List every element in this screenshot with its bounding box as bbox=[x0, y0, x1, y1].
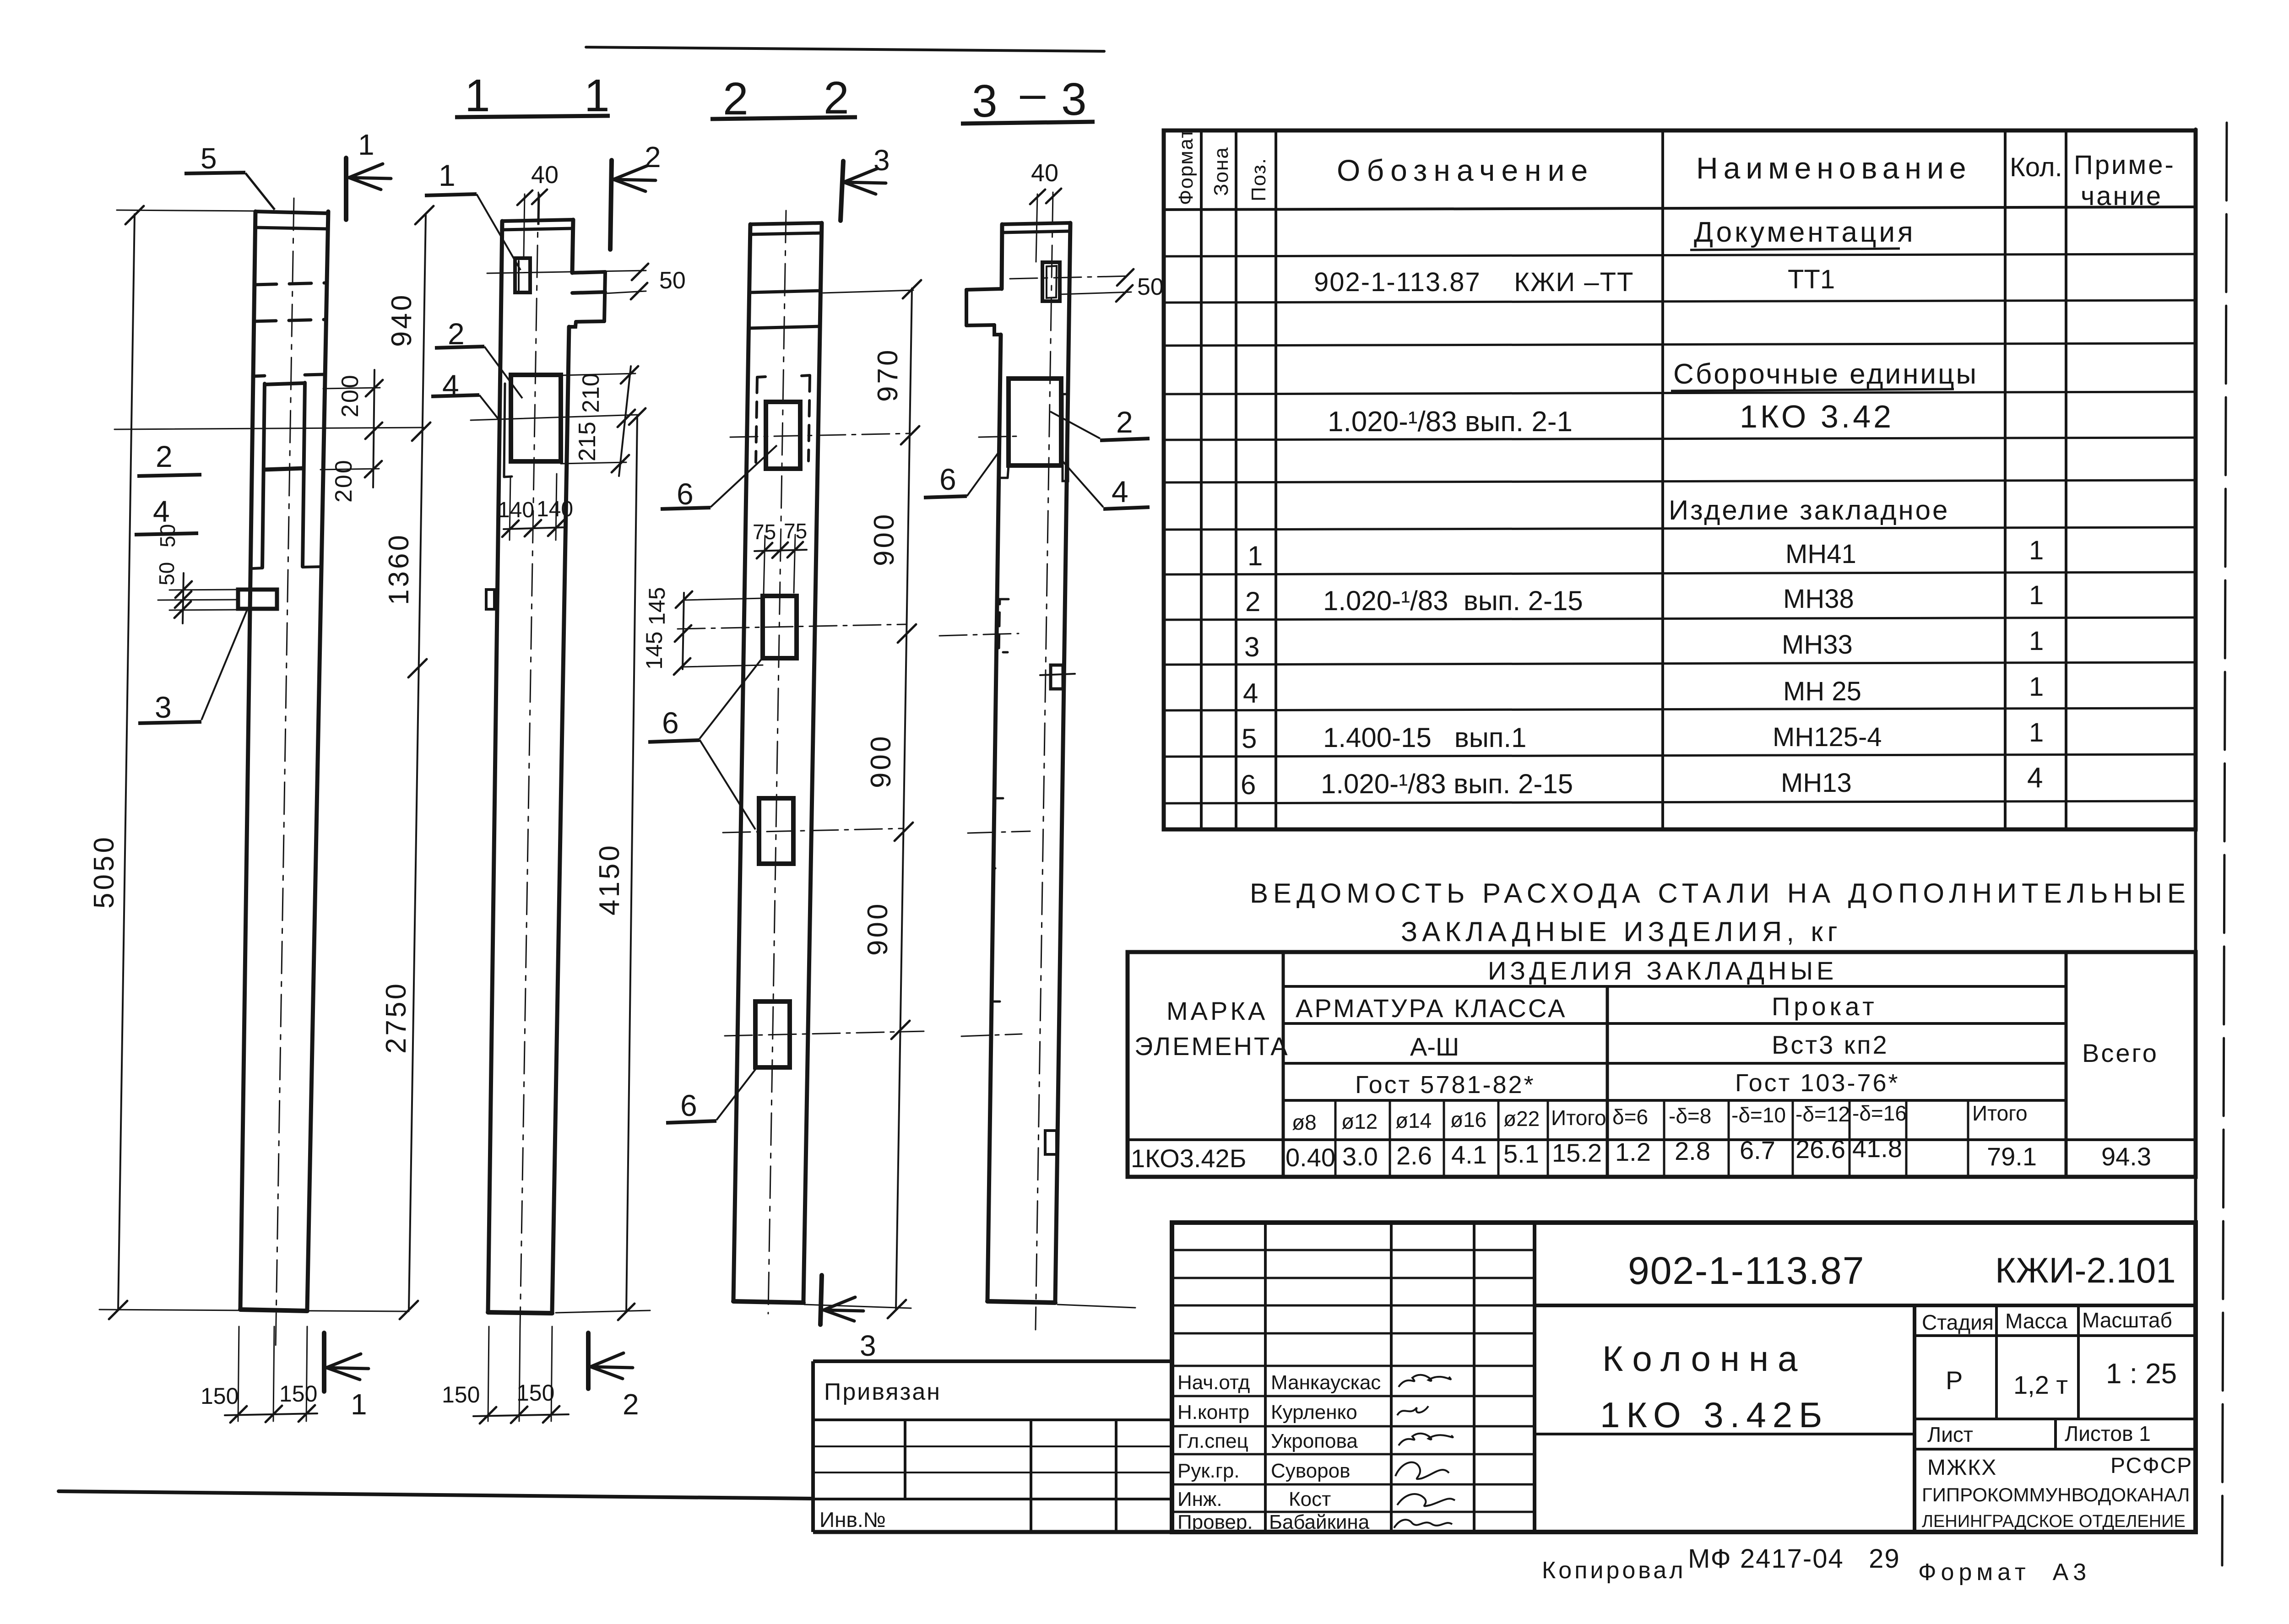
right plate D col4 bbox=[1045, 1131, 1057, 1154]
svg-text:6: 6 bbox=[662, 706, 679, 740]
svg-text:Масса: Масса bbox=[2005, 1309, 2067, 1333]
svg-text:Кост: Кост bbox=[1289, 1488, 1331, 1510]
svg-text:1: 1 bbox=[2029, 718, 2044, 747]
svg-text:26.6: 26.6 bbox=[1795, 1135, 1845, 1164]
svg-text:1,2 т: 1,2 т bbox=[2013, 1370, 2068, 1399]
svg-text:1КО 3.42Б: 1КО 3.42Б bbox=[1600, 1395, 1828, 1435]
column 1 centerline bbox=[276, 198, 294, 1350]
svg-text:3.0: 3.0 bbox=[1342, 1142, 1378, 1171]
svg-text:Привязан: Привязан bbox=[824, 1379, 941, 1405]
svg-text:1КО 3.42: 1КО 3.42 bbox=[1740, 399, 1894, 434]
section mark 3 bottom bbox=[820, 1275, 863, 1325]
svg-text:1: 1 bbox=[465, 70, 490, 121]
svg-text:Обозначение: Обозначение bbox=[1337, 153, 1594, 187]
column 1 dashed joint lines bbox=[255, 283, 327, 285]
section mark 3 top bbox=[841, 161, 886, 221]
svg-text:Сборочные единицы: Сборочные единицы bbox=[1673, 358, 1978, 390]
svg-text:2: 2 bbox=[645, 141, 661, 173]
svg-text:50: 50 bbox=[1137, 274, 1164, 300]
embedded plate item 3 bbox=[238, 590, 277, 609]
svg-text:900: 900 bbox=[865, 734, 897, 788]
svg-text:5.1: 5.1 bbox=[1503, 1139, 1539, 1168]
dimension 970/900/900/900 bbox=[804, 280, 921, 1318]
svg-text:Гост 103-76*: Гост 103-76* bbox=[1735, 1069, 1900, 1097]
dimension 50 col2 bbox=[487, 264, 648, 299]
svg-text:δ=6: δ=6 bbox=[1612, 1105, 1648, 1129]
svg-text:4150: 4150 bbox=[594, 843, 625, 915]
svg-text:1: 1 bbox=[2029, 580, 2044, 610]
svg-text:902-1-113.87: 902-1-113.87 bbox=[1628, 1249, 1865, 1292]
vertical column lines bbox=[1200, 130, 1203, 829]
svg-text:94.3: 94.3 bbox=[2101, 1142, 2151, 1171]
corbel block items 2/4 bbox=[511, 375, 561, 461]
svg-text:0.40: 0.40 bbox=[1286, 1143, 1335, 1172]
svg-text:15.2: 15.2 bbox=[1552, 1138, 1602, 1167]
svg-text:КЖИ-2.101: КЖИ-2.101 bbox=[1995, 1250, 2176, 1290]
svg-text:ГИПРОКОММУНВОДОКАНАЛ: ГИПРОКОММУНВОДОКАНАЛ bbox=[1922, 1484, 2190, 1505]
column 3 joint lines bbox=[749, 291, 821, 292]
right frame vertical bbox=[2194, 129, 2197, 1532]
embedded plate 6c bbox=[759, 798, 793, 864]
dimension line 940/1360/2750 bbox=[114, 206, 434, 1319]
section title 2-2 bbox=[723, 72, 849, 125]
svg-text:1: 1 bbox=[584, 70, 610, 121]
svg-text:4: 4 bbox=[2027, 762, 2043, 794]
svg-text:-δ=8: -δ=8 bbox=[1669, 1104, 1711, 1128]
svg-text:140: 140 bbox=[498, 498, 534, 522]
svg-text:1.020-¹/83 вып. 2-1: 1.020-¹/83 вып. 2-1 bbox=[1328, 406, 1573, 438]
dimension 40 col4 bbox=[1030, 189, 1061, 262]
svg-text:40: 40 bbox=[1031, 159, 1058, 187]
svg-text:2750: 2750 bbox=[380, 981, 412, 1054]
svg-text:ø16: ø16 bbox=[1450, 1108, 1486, 1131]
svg-text:2.8: 2.8 bbox=[1675, 1137, 1710, 1165]
svg-text:6: 6 bbox=[939, 462, 956, 496]
dimension 4150 bbox=[556, 408, 650, 1320]
svg-text:ИЗДЕЛИЯ ЗАКЛАДНЫЕ: ИЗДЕЛИЯ ЗАКЛАДНЫЕ bbox=[1488, 956, 1837, 985]
svg-text:Наименование: Наименование bbox=[1696, 151, 1972, 185]
TITLE BLOCK bbox=[1172, 1223, 2196, 1532]
dashed page margin line bbox=[2222, 123, 2227, 1565]
svg-text:Манкаускас: Манкаускас bbox=[1271, 1371, 1381, 1394]
svg-text:–: – bbox=[1020, 68, 1046, 119]
svg-text:Документация: Документация bbox=[1694, 217, 1916, 248]
dimension 145/145 bbox=[674, 591, 763, 675]
svg-text:МН 25: МН 25 bbox=[1783, 677, 1861, 706]
svg-text:Вст3 кп2: Вст3 кп2 bbox=[1772, 1030, 1889, 1059]
svg-text:Инв.№: Инв.№ bbox=[819, 1508, 886, 1532]
embedded plate 6a bbox=[766, 402, 800, 469]
COLUMN VIEW 4 (section 3-3) bbox=[939, 192, 1135, 1330]
svg-text:210: 210 bbox=[578, 373, 604, 413]
svg-text:5: 5 bbox=[1242, 723, 1257, 754]
svg-text:200: 200 bbox=[331, 459, 357, 503]
svg-text:2.6: 2.6 bbox=[1396, 1141, 1432, 1170]
svg-text:Формат А3: Формат А3 bbox=[1918, 1559, 2091, 1586]
svg-text:1: 1 bbox=[2029, 672, 2044, 702]
svg-text:Р: Р bbox=[1946, 1366, 1963, 1395]
svg-text:Бабайкина: Бабайкина bbox=[1269, 1511, 1370, 1533]
svg-text:Кол.: Кол. bbox=[2010, 152, 2062, 182]
svg-text:150: 150 bbox=[279, 1381, 317, 1407]
svg-text:6.7: 6.7 bbox=[1740, 1136, 1775, 1164]
plate centerlines bbox=[730, 433, 909, 437]
svg-text:1.020-¹/83 вып. 2-15: 1.020-¹/83 вып. 2-15 bbox=[1323, 585, 1583, 616]
svg-text:Колонна: Колонна bbox=[1602, 1338, 1806, 1379]
svg-text:Курленко: Курленко bbox=[1271, 1401, 1357, 1424]
svg-text:2: 2 bbox=[1245, 586, 1260, 617]
svg-text:Зона: Зона bbox=[1210, 146, 1232, 196]
svg-text:75: 75 bbox=[784, 519, 807, 543]
svg-text:3: 3 bbox=[1061, 74, 1087, 125]
svg-text:1.2: 1.2 bbox=[1615, 1137, 1651, 1166]
svg-text:3: 3 bbox=[873, 144, 890, 177]
column 2 centerline bbox=[520, 192, 538, 1327]
svg-text:970: 970 bbox=[872, 348, 904, 402]
svg-text:150: 150 bbox=[201, 1383, 239, 1409]
svg-text:1: 1 bbox=[2029, 536, 2044, 565]
svg-text:Гл.спец: Гл.спец bbox=[1177, 1430, 1248, 1452]
svg-text:ø12: ø12 bbox=[1341, 1110, 1378, 1133]
dimension 140/140 bbox=[502, 474, 566, 540]
svg-text:ЛЕНИНГРАДСКОЕ ОТДЕЛЕНИЕ: ЛЕНИНГРАДСКОЕ ОТДЕЛЕНИЕ bbox=[1922, 1512, 2186, 1531]
svg-text:Копировал: Копировал bbox=[1542, 1557, 1686, 1584]
column 4 outline bbox=[1055, 223, 1070, 1301]
dimension 75/75 bbox=[754, 535, 807, 594]
svg-text:900: 900 bbox=[862, 902, 894, 956]
top frame line bbox=[586, 47, 1104, 51]
column 1 outline bbox=[240, 211, 255, 1310]
svg-text:1: 1 bbox=[351, 1388, 367, 1421]
phi header row bbox=[1292, 1101, 2028, 1134]
section mark 1 top bbox=[346, 158, 391, 220]
svg-text:5050: 5050 bbox=[88, 834, 120, 909]
svg-text:1: 1 bbox=[439, 158, 456, 192]
svg-text:1: 1 bbox=[358, 128, 374, 161]
svg-text:Приме-: Приме- bbox=[2074, 150, 2175, 180]
COLUMN VIEW 1 (front elevation) bbox=[238, 198, 328, 1350]
svg-text:1.400-15 вып.1: 1.400-15 вып.1 bbox=[1323, 722, 1526, 753]
SPECIFICATION TABLE (top right) bbox=[1164, 130, 2196, 829]
svg-text:Листов 1: Листов 1 bbox=[2065, 1422, 2151, 1445]
tie-in block (Privyazan) bbox=[813, 1361, 1172, 1532]
svg-text:Н.контр: Н.контр bbox=[1177, 1401, 1249, 1424]
svg-text:2: 2 bbox=[623, 1388, 639, 1421]
svg-text:ЗАКЛАДНЫЕ ИЗДЕЛИЯ, кг: ЗАКЛАДНЫЕ ИЗДЕЛИЯ, кг bbox=[1401, 916, 1842, 947]
svg-text:940: 940 bbox=[386, 293, 418, 347]
svg-text:902-1-113.87 КЖИ –ТТ: 902-1-113.87 КЖИ –ТТ bbox=[1314, 267, 1634, 297]
dimension 40 top col2 bbox=[517, 189, 547, 256]
svg-text:Суворов: Суворов bbox=[1271, 1460, 1350, 1482]
svg-text:50: 50 bbox=[659, 267, 686, 294]
column 3 outline bbox=[733, 224, 750, 1301]
svg-text:1: 1 bbox=[1248, 541, 1263, 571]
column 4 left console notch bbox=[966, 289, 1002, 290]
data row bbox=[1131, 1134, 2151, 1173]
COLUMN VIEW 3 (section 2-2) bbox=[678, 211, 924, 1314]
svg-text:1: 1 bbox=[2029, 626, 2044, 656]
svg-text:МН125-4: МН125-4 bbox=[1773, 722, 1882, 752]
dimension 50 col4 bbox=[1010, 269, 1134, 302]
column 2 outline bbox=[488, 221, 502, 1312]
svg-text:МН13: МН13 bbox=[1781, 768, 1852, 798]
section title 1-1 bbox=[465, 70, 610, 121]
row lines bbox=[1164, 254, 2196, 256]
svg-text:Поз.: Поз. bbox=[1248, 157, 1270, 201]
svg-text:1360: 1360 bbox=[383, 533, 415, 605]
svg-text:-δ=12: -δ=12 bbox=[1795, 1102, 1850, 1126]
signature rows labels bbox=[1177, 1371, 1381, 1533]
svg-text:6: 6 bbox=[677, 477, 694, 511]
svg-text:АРМАТУРА КЛАССА: АРМАТУРА КЛАССА bbox=[1296, 994, 1567, 1023]
svg-text:2: 2 bbox=[1116, 405, 1133, 439]
dimension 5050 bbox=[99, 206, 409, 1319]
svg-text:ЭЛЕМЕНТА: ЭЛЕМЕНТА bbox=[1134, 1032, 1290, 1061]
svg-text:Итого: Итого bbox=[1972, 1101, 2028, 1125]
column 2 right console notch bbox=[572, 272, 605, 273]
section mark 2 bottom bbox=[588, 1333, 633, 1389]
svg-text:200: 200 bbox=[337, 374, 363, 417]
section mark 2 top bbox=[610, 160, 656, 249]
svg-text:4: 4 bbox=[153, 494, 170, 528]
svg-text:215: 215 bbox=[574, 422, 601, 461]
svg-text:-δ=10: -δ=10 bbox=[1731, 1103, 1786, 1127]
svg-text:МН33: МН33 bbox=[1782, 630, 1853, 660]
svg-text:Провер.: Провер. bbox=[1177, 1511, 1253, 1533]
header bottom bbox=[1164, 207, 2196, 210]
svg-text:41.8: 41.8 bbox=[1852, 1134, 1902, 1163]
svg-text:ø14: ø14 bbox=[1395, 1109, 1432, 1132]
svg-text:50: 50 bbox=[155, 562, 179, 585]
COLUMN VIEW 2 (section 1-1) bbox=[486, 192, 605, 1327]
svg-text:6: 6 bbox=[680, 1088, 697, 1122]
svg-text:Инж.: Инж. bbox=[1177, 1488, 1222, 1510]
svg-text:Лист: Лист bbox=[1927, 1423, 1973, 1446]
svg-text:Итого: Итого bbox=[1551, 1106, 1606, 1130]
svg-text:Формат: Формат bbox=[1175, 128, 1197, 205]
svg-text:Гост 5781-82*: Гост 5781-82* bbox=[1355, 1071, 1535, 1099]
svg-text:145: 145 bbox=[644, 587, 670, 625]
dimension 200/200 bbox=[320, 370, 383, 487]
svg-text:-δ=16: -δ=16 bbox=[1852, 1101, 1907, 1125]
embedded plate item 1 bbox=[515, 258, 530, 292]
svg-text:Стадия: Стадия bbox=[1922, 1310, 1994, 1334]
signatures bbox=[1394, 1375, 1455, 1528]
section mark 1 bottom bbox=[324, 1333, 369, 1391]
svg-text:75: 75 bbox=[753, 520, 776, 544]
svg-text:МАРКА: МАРКА bbox=[1166, 996, 1268, 1025]
svg-text:3: 3 bbox=[155, 690, 172, 724]
svg-text:3: 3 bbox=[972, 76, 998, 127]
svg-text:5: 5 bbox=[201, 142, 217, 175]
corbel block col4 bbox=[1009, 379, 1061, 466]
small left plate bbox=[486, 590, 494, 609]
hidden recess dashed bbox=[757, 377, 765, 377]
svg-text:Рук.гр.: Рук.гр. bbox=[1177, 1460, 1240, 1482]
right plate A col4 bbox=[1051, 665, 1063, 689]
hidden plates dashed col4 bbox=[999, 599, 1009, 652]
svg-text:4: 4 bbox=[1243, 678, 1258, 709]
svg-text:900: 900 bbox=[868, 512, 900, 566]
dimension 50/50 at plate 3 bbox=[158, 573, 238, 623]
svg-text:3: 3 bbox=[860, 1329, 876, 1362]
svg-text:РСФСР: РСФСР bbox=[2110, 1454, 2192, 1478]
svg-text:6: 6 bbox=[1241, 769, 1256, 800]
svg-text:Прокат: Прокат bbox=[1772, 992, 1878, 1021]
svg-text:ø22: ø22 bbox=[1503, 1107, 1540, 1131]
column 1 corbel recess bbox=[253, 376, 265, 376]
svg-text:1.020-¹/83 вып. 2-15: 1.020-¹/83 вып. 2-15 bbox=[1321, 769, 1573, 799]
embedded plate 6d bbox=[755, 1001, 790, 1067]
dimension 210/215 bbox=[471, 366, 639, 476]
svg-text:150: 150 bbox=[442, 1382, 480, 1407]
svg-text:4.1: 4.1 bbox=[1451, 1140, 1487, 1169]
section title 3-3 bbox=[972, 68, 1087, 127]
svg-text:ø8: ø8 bbox=[1292, 1110, 1317, 1134]
svg-text:Нач.отд: Нач.отд bbox=[1177, 1371, 1250, 1394]
svg-text:МН38: МН38 bbox=[1783, 584, 1854, 614]
svg-text:150: 150 bbox=[516, 1380, 554, 1406]
svg-text:3: 3 bbox=[1244, 632, 1259, 662]
svg-text:1КО3.42Б: 1КО3.42Б bbox=[1131, 1144, 1246, 1173]
svg-text:ТТ1: ТТ1 bbox=[1788, 265, 1835, 294]
svg-text:40: 40 bbox=[531, 161, 559, 189]
embedded plate 6b bbox=[763, 596, 797, 658]
svg-text:79.1: 79.1 bbox=[1987, 1142, 2037, 1171]
embedded plate item 1 col4 bbox=[1042, 262, 1060, 301]
bottom left frame line bbox=[59, 1491, 813, 1499]
dimension 150/150 column 1 bbox=[225, 1326, 317, 1423]
svg-text:Масштаб: Масштаб bbox=[2082, 1308, 2172, 1332]
svg-text:МФ 2417-04 29: МФ 2417-04 29 bbox=[1688, 1544, 1900, 1574]
svg-text:ВЕДОМОСТЬ РАСХОДА СТАЛИ НА ДОП: ВЕДОМОСТЬ РАСХОДА СТАЛИ НА ДОПОЛНИТЕЛЬНЫ… bbox=[1250, 878, 2191, 909]
svg-text:140: 140 bbox=[537, 497, 573, 521]
plate centerlines col4 bbox=[979, 436, 1019, 437]
column 3 centerline bbox=[768, 211, 786, 1314]
svg-text:Укропова: Укропова bbox=[1271, 1430, 1358, 1452]
column 4 centerline bbox=[1036, 192, 1053, 1330]
svg-text:МН41: МН41 bbox=[1785, 539, 1856, 569]
dimension 150/150 column 2 bbox=[473, 1326, 569, 1424]
svg-text:145: 145 bbox=[641, 632, 667, 670]
svg-text:А-Ш: А-Ш bbox=[1410, 1032, 1459, 1061]
svg-text:Изделие закладное: Изделие закладное bbox=[1669, 495, 1949, 525]
svg-text:2: 2 bbox=[156, 439, 173, 473]
svg-text:МЖКХ: МЖКХ bbox=[1927, 1456, 1997, 1480]
svg-text:Всего: Всего bbox=[2082, 1039, 2159, 1067]
svg-text:1 : 25: 1 : 25 bbox=[2106, 1358, 2177, 1390]
svg-text:4: 4 bbox=[1112, 475, 1128, 509]
svg-text:чание: чание bbox=[2081, 181, 2163, 211]
